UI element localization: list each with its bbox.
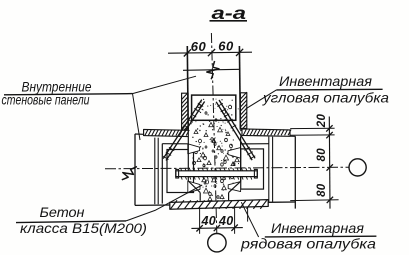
corner formwork right vertical leg (hatched): [240, 93, 246, 129]
right wall panel end (right edge of figure): [294, 136, 296, 208]
svg-text:Инвентарная: Инвентарная: [271, 220, 365, 236]
horizontal tie bolt with washers (ticked): [176, 171, 257, 177]
dim 40 extension left: [199, 208, 201, 234]
dim 40 tick middle: [214, 225, 220, 231]
horizontal centerline break mark: [122, 167, 137, 180]
left wall panel end (left edge of figure): [134, 134, 136, 206]
dim 40 line: [191, 227, 242, 230]
svg-text:Бетон: Бетон: [40, 204, 85, 220]
vertical panel break line: [183, 69, 240, 70]
right wall bottom edge: [268, 201, 296, 203]
left panel end upper tongue: [188, 144, 200, 154]
joint cavity right lower face: [228, 193, 230, 201]
vertical centerline axis: [211, 33, 216, 233]
joint top box (panel bottom frame): [192, 95, 236, 120]
label underline (бетон): [16, 221, 126, 223]
top dim extension left panel edge: [186, 46, 189, 130]
right panel end top shoulder: [241, 143, 269, 145]
right dim extension wall bottom: [290, 199, 338, 202]
top dim tick middle: [208, 49, 215, 56]
right dim tick 1: [326, 125, 332, 131]
leader tick vertical (row formwork): [247, 207, 249, 221]
right dim line vertical: [328, 117, 331, 209]
svg-text:80: 80: [316, 148, 328, 162]
left panel end top shoulder: [162, 143, 187, 145]
dim 40 extension right: [234, 207, 236, 234]
left wall top edge segment: [135, 133, 144, 135]
right dim tick 2: [326, 132, 332, 138]
tie rod left (with thread ticks): [163, 100, 202, 159]
svg-text:рядовая опалубка: рядовая опалубка: [240, 235, 376, 251]
left panel end lower tongue: [188, 181, 200, 193]
svg-text:20: 20: [316, 114, 328, 129]
svg-text:Инвентарная: Инвентарная: [279, 73, 373, 89]
joint cavity right face: [240, 136, 242, 181]
top dimension line: [168, 52, 252, 53]
right dim tick 4: [327, 197, 333, 203]
right groove frame top extension: [236, 148, 241, 150]
svg-text:60: 60: [218, 39, 234, 54]
corner formwork left vertical leg (hatched): [182, 93, 189, 130]
right dim extension flange top: [290, 127, 334, 129]
svg-text:угловая опалубка: угловая опалубка: [262, 89, 389, 105]
bottom row formwork board (hatched): [170, 200, 268, 210]
label underline (угловая): [276, 88, 382, 91]
top dim extension right panel edge: [239, 46, 240, 130]
leader to concrete: [126, 185, 202, 221]
right panel end lower tongue: [228, 182, 240, 192]
svg-text:60: 60: [191, 39, 207, 54]
tie rod right (with thread ticks): [216, 102, 252, 160]
corner formwork left horizontal leg (hatched): [144, 129, 189, 136]
joint cavity left lower face: [199, 193, 201, 201]
label underline (внутренние): [4, 94, 133, 95]
dim 40 tick left: [196, 225, 202, 231]
left panel end groove frame: [167, 150, 194, 193]
top dim tick left: [184, 49, 191, 56]
right dim tick 3: [327, 164, 333, 170]
leader to vertical panel: [133, 76, 197, 93]
horizontal centerline axis: [105, 167, 349, 169]
joint cavity right chamfer: [229, 181, 241, 192]
svg-text:40: 40: [218, 214, 234, 228]
label underline (рядовая): [265, 235, 377, 238]
vertical centerline break mark: [207, 61, 219, 79]
leader to row formwork: [241, 202, 258, 237]
joint cavity left chamfer: [188, 181, 200, 193]
right dim extension flange bottom: [290, 134, 334, 136]
corner formwork right horizontal leg (hatched): [242, 129, 290, 136]
leader to horizontal panel: [133, 94, 141, 140]
right wall top edge segment: [290, 135, 295, 137]
svg-text:40: 40: [201, 214, 217, 228]
left wall bottom edge: [135, 204, 170, 206]
left vertical formwork sheet (double line): [154, 138, 156, 205]
joint cavity left face: [187, 137, 189, 181]
dim 40 tick right: [231, 225, 237, 231]
right panel end upper tongue: [228, 148, 241, 159]
right groove frame bottom extension: [236, 188, 241, 190]
left panel end outer face: [161, 144, 163, 204]
top dim tick right: [236, 49, 243, 56]
right vertical formwork sheet (double line): [268, 137, 270, 202]
bottom callout circle: [208, 234, 226, 252]
svg-text:80: 80: [316, 183, 328, 197]
concrete fill stipple (dots, stones): [195, 150, 198, 153]
leader to corner formwork: [246, 90, 277, 109]
right callout circle: [349, 159, 366, 176]
right panel end groove frame: [241, 149, 264, 189]
title underline: [210, 20, 248, 22]
